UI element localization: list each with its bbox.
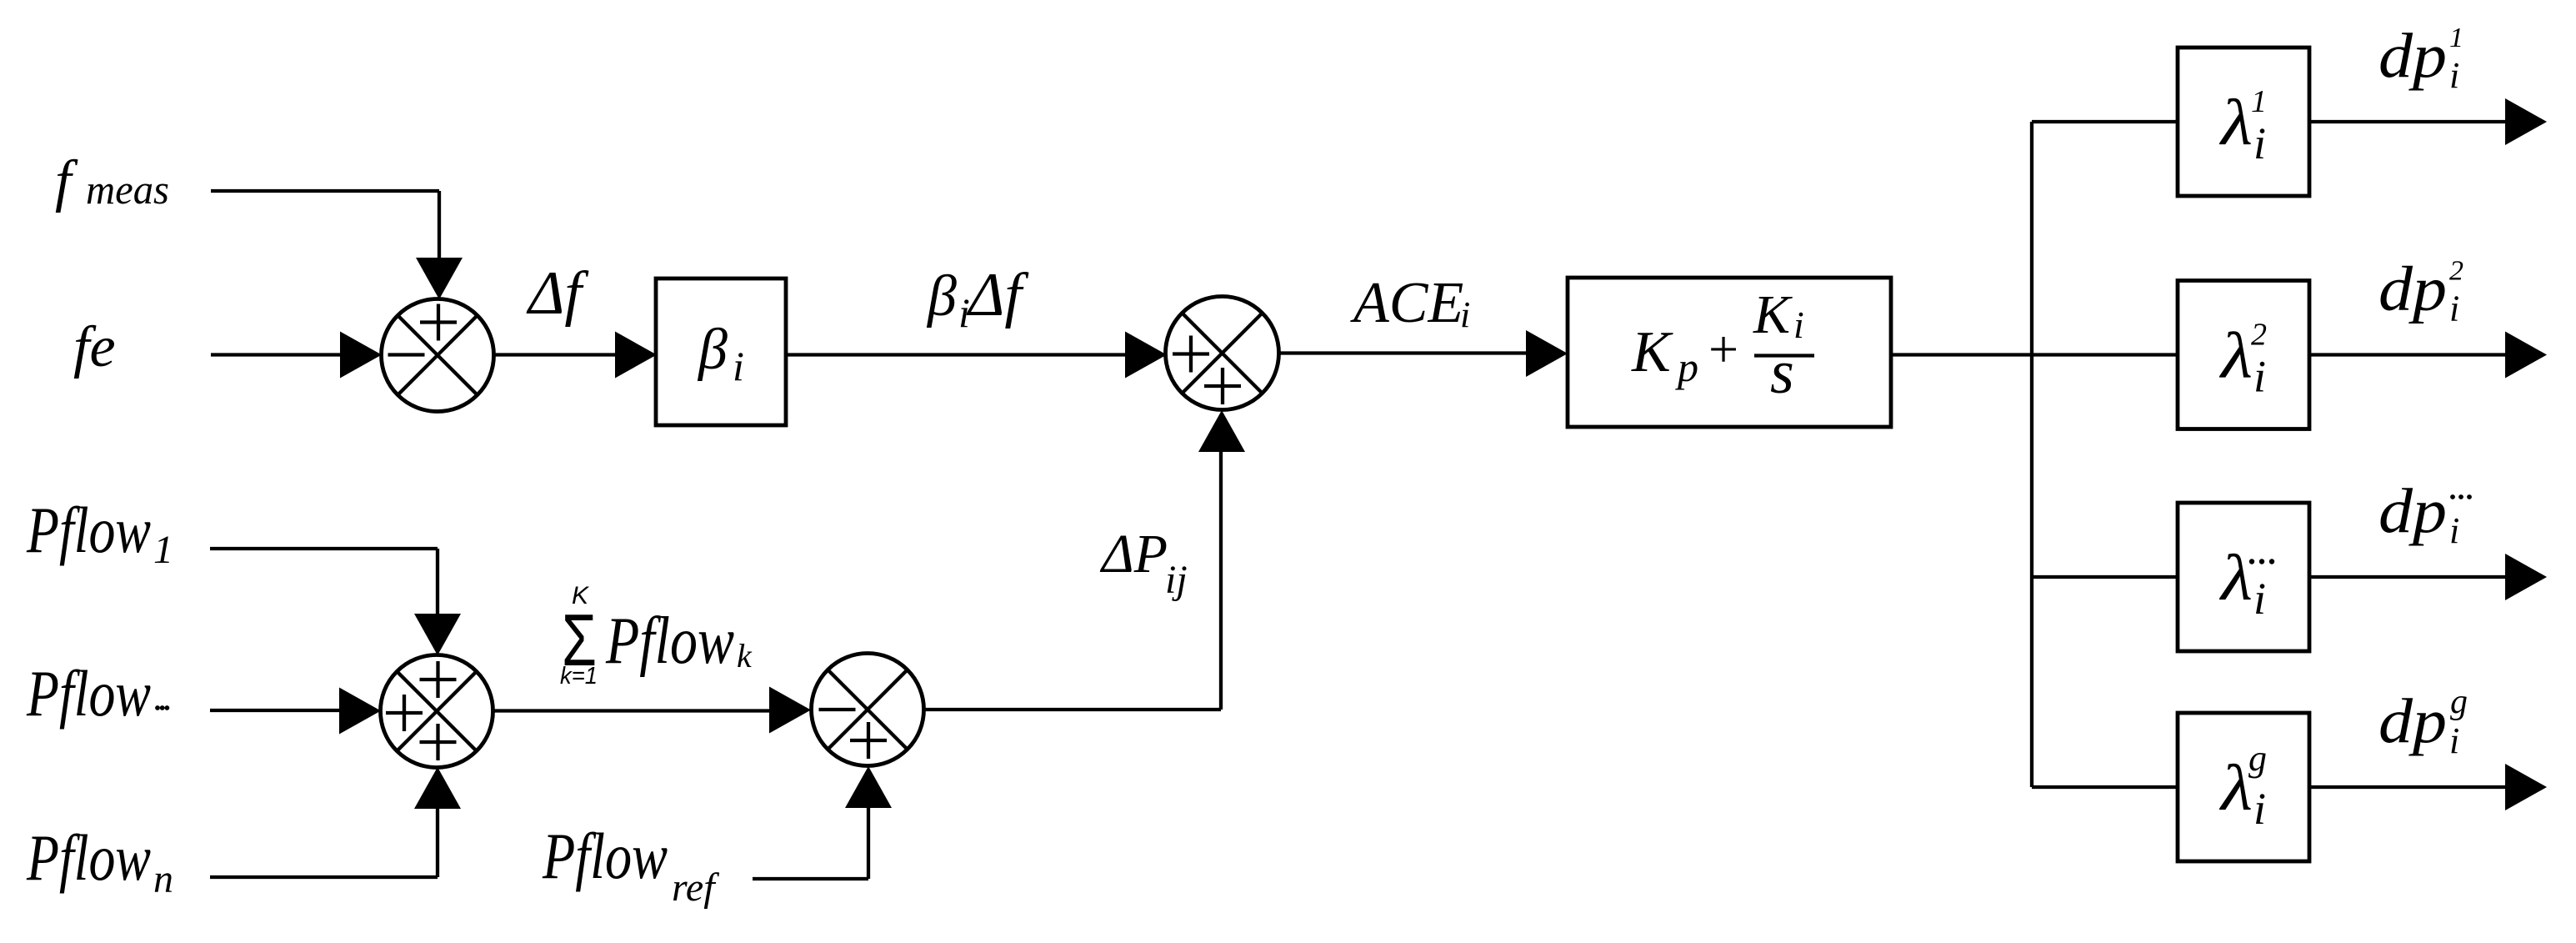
svg-text:Pflow: Pflow <box>542 820 668 892</box>
summer S2 (ACE) <box>1166 297 1279 410</box>
svg-text:dp: dp <box>2378 686 2447 756</box>
svg-text:s: s <box>1770 339 1794 407</box>
wire S2 output to PI block <box>1279 351 1528 354</box>
svg-text:p: p <box>1675 344 1698 390</box>
wire fe horizontal <box>211 353 342 356</box>
svg-text:i: i <box>2253 784 2266 834</box>
svg-text:Pflow: Pflow <box>26 821 151 894</box>
svg-text:dp: dp <box>2378 254 2447 324</box>
wire S3 output to summer S4 <box>493 709 772 712</box>
wire Pflow_n horizontal <box>210 875 438 879</box>
wire lambda block 1 to output arrow <box>2309 120 2506 123</box>
svg-text:Pflow: Pflow <box>605 604 734 678</box>
summer S4 (Pflow sum - ref) <box>812 654 924 766</box>
arrowhead into summer S2 bottom <box>1198 410 1245 452</box>
arrowhead dp output 3 <box>2505 554 2547 600</box>
wire Pflow_ref vertical rise <box>867 807 870 879</box>
svg-text:β: β <box>697 318 728 382</box>
wire S1 output to beta box <box>494 353 618 356</box>
svg-text:g: g <box>2450 683 2468 721</box>
wire lambda block 4 to output arrow <box>2309 785 2506 789</box>
lambda block 1 <box>2178 48 2309 196</box>
wire Pflow_ref horizontal <box>753 877 868 880</box>
lambda block 3 <box>2178 503 2309 651</box>
summer S3 (sum of Pflow) <box>381 655 493 768</box>
arrowhead into summer S3 left <box>339 688 381 735</box>
wire Pflow_1 vertical drop <box>436 549 439 615</box>
svg-text:i: i <box>2253 574 2266 624</box>
svg-text:1: 1 <box>153 528 173 572</box>
svg-text:i: i <box>2449 55 2459 96</box>
svg-text:λ: λ <box>2219 319 2253 392</box>
svg-text:ref: ref <box>672 865 719 910</box>
wire Delta-P_ij vertical rise <box>1219 452 1223 710</box>
svg-text:i: i <box>2449 288 2459 329</box>
block beta_i <box>656 278 786 425</box>
svg-text:n: n <box>153 857 173 901</box>
wire lambda block 2 to output arrow <box>2309 353 2506 356</box>
vertical bus line <box>2030 122 2033 787</box>
svg-text:k: k <box>737 637 753 675</box>
svg-text:2: 2 <box>2449 256 2463 287</box>
svg-text:Δf: Δf <box>966 261 1029 329</box>
arrowhead into summer S1 left <box>340 332 382 379</box>
wire PI output through bus to lambda2 <box>1891 353 2178 356</box>
svg-text:ΔP: ΔP <box>1099 524 1168 584</box>
svg-text:i: i <box>733 343 744 389</box>
svg-text:Δf: Δf <box>526 259 589 328</box>
svg-text:+: + <box>1708 319 1738 379</box>
svg-text:λ: λ <box>2219 751 2253 824</box>
svg-text:λ: λ <box>2219 86 2253 158</box>
svg-text:ACE: ACE <box>1350 271 1463 335</box>
arrowhead into summer S1 top <box>416 258 463 299</box>
fraction bar in PI block <box>1754 354 1814 357</box>
arrowhead into summer S2 left <box>1125 332 1167 379</box>
svg-text:i: i <box>2449 720 2459 761</box>
arrowhead into summer S3 bottom <box>414 767 461 809</box>
summer S1 (f_meas - fe) <box>382 299 494 412</box>
svg-text:2: 2 <box>2251 318 2267 353</box>
wire bus to lambda block 4 <box>2032 785 2178 789</box>
arrowhead into beta box <box>615 332 657 379</box>
wire beta box to summer S2 <box>786 353 1127 356</box>
svg-text:K: K <box>1753 284 1793 345</box>
svg-text:β: β <box>926 264 957 329</box>
svg-text:K: K <box>572 582 590 609</box>
svg-text:Pflow: Pflow <box>26 657 151 730</box>
arrowhead into PI block <box>1526 330 1568 377</box>
svg-text:fe: fe <box>73 315 116 379</box>
svg-text:dp: dp <box>2378 476 2447 546</box>
block Kp + Ki/s <box>1568 278 1891 427</box>
svg-text:1: 1 <box>2449 23 2463 53</box>
lambda block 2 <box>2178 281 2309 429</box>
svg-text:1: 1 <box>2251 84 2267 119</box>
wire Pflow_... horizontal <box>210 709 342 712</box>
wire f_meas horizontal <box>211 189 439 193</box>
svg-text:ij: ij <box>1165 558 1188 602</box>
arrowhead dp output 2 <box>2505 332 2547 379</box>
svg-text:λ: λ <box>2219 541 2253 614</box>
svg-text:k=1: k=1 <box>560 663 598 690</box>
wire bus to lambda block 3 <box>2032 575 2178 579</box>
arrowhead dp output 4 <box>2505 764 2547 810</box>
svg-text:K: K <box>1631 320 1673 384</box>
wire bus to lambda block 1 <box>2032 120 2178 123</box>
wire lambda block 3 to output arrow <box>2309 575 2506 579</box>
arrowhead into summer S4 bottom <box>845 766 892 808</box>
svg-text:meas: meas <box>86 166 169 213</box>
wire Pflow_1 horizontal <box>210 547 438 550</box>
wire Pflow_n vertical rise <box>436 808 439 877</box>
svg-text:Pflow: Pflow <box>26 494 151 566</box>
svg-text:g: g <box>2248 738 2267 779</box>
svg-text:dp: dp <box>2378 21 2447 91</box>
svg-text:i: i <box>1460 294 1470 335</box>
svg-text:i: i <box>2449 510 2459 551</box>
lambda block 4 <box>2178 713 2309 861</box>
svg-text:i: i <box>2253 118 2266 168</box>
arrowhead into summer S3 top <box>414 614 461 655</box>
wire S4 output horizontal <box>924 708 1222 711</box>
arrowhead into summer S4 left <box>769 687 811 734</box>
svg-text:i: i <box>1793 303 1804 346</box>
wire f_meas vertical drop <box>438 191 441 260</box>
arrowhead dp output 1 <box>2505 98 2547 145</box>
svg-text:i: i <box>2253 352 2266 402</box>
